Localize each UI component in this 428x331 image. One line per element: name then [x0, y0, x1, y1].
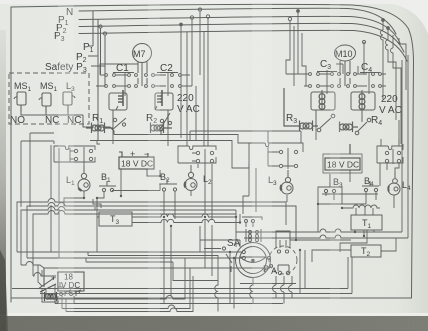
- contact group CG6 right: [377, 139, 403, 164]
- wire safety P3 drop: [91, 35, 105, 86]
- SA left switch: [204, 247, 245, 272]
- contactor C2 label bar: [157, 72, 178, 74]
- contactor C1 coil: [109, 90, 127, 127]
- right side drops from curved rails: [383, 20, 393, 48]
- top-right page corner light: [380, 0, 428, 34]
- contact group CG3: [249, 143, 303, 169]
- battery supply 18VDC bottom-left: [38, 268, 84, 292]
- timer T1: [351, 215, 382, 230]
- wire bottom-center loop: [86, 252, 218, 312]
- wire routing left bundle: [12, 199, 352, 312]
- battery supply 18VDC right: [323, 144, 362, 173]
- dashed safety switch box: [9, 73, 89, 124]
- wire verticals left region: [21, 133, 59, 286]
- relay R1 switch: [97, 118, 126, 135]
- wire C3-C4 mid drops: [336, 42, 364, 74]
- wire M10 leads: [340, 61, 350, 86]
- relay R5 coil bottom: [45, 292, 57, 301]
- battery supply 18VDC left: [119, 152, 154, 169]
- contactor C3 contacts: [304, 70, 340, 94]
- relay R2 switch: [159, 113, 172, 135]
- contactor C3 coil: [311, 90, 335, 127]
- wire hop bumps right / SA drops: [250, 278, 292, 304]
- wire P3 rail: [79, 30, 407, 61]
- contactor C2 contacts: [145, 72, 188, 96]
- motor M10: [335, 45, 356, 61]
- wire safety P1 drop: [88, 20, 98, 141]
- bottom switches: [42, 282, 81, 304]
- wire middle region: [64, 127, 249, 304]
- contactor C3 label bar: [317, 71, 337, 73]
- limit switch LS (NC): [63, 92, 75, 112]
- left dark page edge: [0, 0, 428, 4]
- wire safety P2 drop: [100, 28, 102, 74]
- limit switch MS1 (NC): [39, 93, 51, 112]
- contact group CG2: [178, 146, 216, 164]
- wire safety N drop: [89, 11, 93, 46]
- bottom page edge highlight: [0, 313, 428, 316]
- wires top drops to C1 C2: [96, 8, 210, 146]
- SA top contacts: [242, 217, 262, 227]
- contactor C1 contacts: [100, 72, 137, 96]
- node N drop: [199, 11, 201, 75]
- contactor C4 label bar: [360, 72, 379, 74]
- wire P1 rail: [79, 16, 400, 43]
- junction dots: [83, 175, 365, 259]
- contactor C4 contacts: [347, 72, 386, 94]
- timer T2: [351, 245, 381, 257]
- wire bank feeds: [96, 64, 196, 140]
- motor M7: [133, 44, 152, 63]
- relay R4 switch: [355, 118, 371, 135]
- contactor C2 coil: [155, 90, 173, 127]
- node P1 open: [190, 16, 193, 19]
- limit switch MS1 (NO): [14, 92, 26, 112]
- contactor C1 label bar: [113, 72, 134, 74]
- contact group CG1: [54, 146, 95, 162]
- node P2 drop: [180, 23, 183, 26]
- SA stack contacts: [246, 229, 261, 242]
- wire safety bus: [21, 112, 94, 127]
- node P3 drop: [187, 32, 204, 147]
- wires top drops to C3 C4: [286, 10, 406, 144]
- scan streaks: [58, 4, 340, 316]
- wire right region: [190, 55, 408, 294]
- bottom shadow strip: [0, 316, 428, 331]
- wire P2 rail: [79, 23, 404, 52]
- timer T3: [99, 212, 132, 226]
- contactor C4 coil: [351, 90, 375, 122]
- SA plug upper: [276, 231, 290, 253]
- SA dashed circle: [269, 246, 297, 274]
- wire N rail: [79, 8, 396, 34]
- relay R3 switch: [317, 114, 335, 132]
- wire M7 leads: [138, 62, 147, 86]
- wire safety chain junctions: [99, 25, 107, 35]
- SA plug lower: [278, 265, 290, 275]
